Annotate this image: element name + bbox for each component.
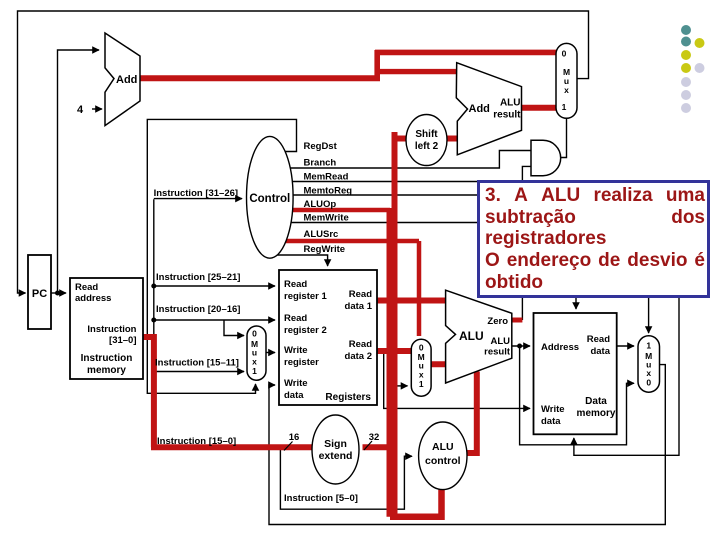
adder Add branch target [456,63,521,155]
wire red shift left 2 input stub [392,136,408,142]
svg-text:memory: memory [577,408,616,419]
control unit ellipse [246,136,293,258]
svg-text:Sign: Sign [324,438,347,450]
data memory box [534,313,617,434]
svg-text:1: 1 [252,366,257,376]
svg-text:Shift: Shift [415,129,438,140]
wire red PC+4 top row to top mux input 0 [375,50,557,56]
svg-text:data 1: data 1 [345,301,373,312]
wire Instruction [20-16] tap to RegDst mux input 0 [224,320,244,336]
svg-text:Read: Read [75,282,98,293]
svg-text:register: register [284,357,319,368]
svg-text:data: data [590,346,610,357]
svg-text:x: x [564,85,569,95]
svg-text:MemRead: MemRead [304,172,349,183]
wire red Read data 2 to ALUSrc mux input 0 [377,348,411,354]
alu U-main [446,290,512,383]
wire red ALUOp control line [286,208,390,213]
svg-text:1: 1 [419,379,424,389]
svg-text:Registers: Registers [325,392,371,403]
decor dot lavender 3 [681,103,691,113]
svg-text:data: data [284,390,304,401]
decor dot yellow 2 [681,63,691,73]
svg-text:x: x [646,368,651,378]
svg-text:Write: Write [284,345,308,356]
wire Read data 2 tap down to data memory Write data [384,351,530,408]
svg-text:1: 1 [646,341,651,351]
tick 32-bit bus width mark [364,441,372,450]
wire red branch Add result to top mux input 1 [522,105,558,111]
svg-text:Data: Data [585,396,607,407]
wire MemtoReg control signal to right mux select [288,195,649,333]
svg-text:Add: Add [116,74,137,86]
svg-text:[31–0]: [31–0] [109,335,136,346]
wire red ALUSrc mux output to ALU lower input [431,361,448,367]
svg-text:ALU: ALU [490,336,510,347]
wire sign-extended immediate to ALUSrc mux input 1 [398,385,408,387]
sign extend ellipse [312,415,359,484]
decor dot teal 2 [681,37,691,47]
svg-text:Read: Read [349,339,372,350]
svg-text:data: data [541,416,561,427]
wire Instruction [20-16] to Read register 2 [154,319,275,321]
wire RegDst mux output to Write register [266,352,275,354]
svg-text:Read: Read [284,279,307,290]
decor dot teal 1 [681,25,691,35]
svg-text:x: x [419,370,424,380]
svg-text:RegDst: RegDst [304,141,338,152]
wire red Zero output stub [512,318,523,323]
svg-text:0: 0 [646,378,651,388]
wire red sign extend output to vertical trunk [363,444,395,450]
wire ALU result to data memory Address [512,345,530,347]
decor dot lavender 1 [681,77,691,87]
svg-text:control: control [425,455,461,467]
wire red vertical trunk combined segment [387,208,398,517]
wire PC value up to Add input [58,50,100,293]
svg-text:Instruction [31–26]: Instruction [31–26] [154,188,238,199]
svg-text:Instruction: Instruction [81,353,133,364]
wire ALU result down and around to right mux input 0 [520,346,634,445]
wire MemRead control signal to data memory bottom [288,182,679,456]
registers file box [279,270,377,405]
svg-text:left 2: left 2 [415,141,439,152]
wire Instruction [25-21] to Read register 1 [154,285,275,287]
svg-text:0: 0 [562,49,567,59]
svg-text:ALU: ALU [500,98,521,109]
svg-text:Address: Address [541,342,579,353]
wire MemWrite control signal to data memory top [286,223,576,310]
svg-text:result: result [484,347,511,358]
svg-text:Add: Add [469,103,490,115]
svg-text:memory: memory [87,365,126,376]
wire Instruction [15-11] to RegDst mux input 1 [154,371,244,373]
wire data memory Read data to right mux input 1 [617,345,634,347]
svg-text:16: 16 [289,432,300,443]
svg-text:Read: Read [284,313,307,324]
mux RegDst write register [247,326,266,380]
wire Instruction [31-26] to Control [154,198,242,200]
svg-text:Instruction [20–16]: Instruction [20–16] [156,304,240,315]
svg-text:Instruction [15–11]: Instruction [15–11] [155,358,239,369]
wire red PC+4 jog vertical [374,50,380,81]
svg-text:RegWrite: RegWrite [304,244,346,255]
svg-text:4: 4 [77,104,84,116]
svg-text:ALU: ALU [432,441,454,453]
svg-text:Instruction [15–0]: Instruction [15–0] [157,436,236,447]
wire red trunk bottom to ALU control [390,487,442,517]
wire red vertical trunk sign-ext segment [392,132,398,212]
tick 16-bit bus width mark [284,442,293,451]
svg-text:register 1: register 1 [284,291,327,302]
svg-text:Instruction [5–0]: Instruction [5–0] [284,493,358,504]
node junction on bus at 25-21 tap [151,284,156,289]
svg-text:1: 1 [562,102,567,112]
callout text box [477,180,710,298]
wire instruction bus vertical [153,199,155,340]
svg-text:extend: extend [319,450,353,462]
svg-text:Instruction: Instruction [87,324,136,335]
svg-text:ALUOp: ALUOp [304,199,337,210]
svg-text:Instruction [25–21]: Instruction [25–21] [156,272,240,283]
decor dot lavender 2 [681,90,691,100]
mux MemtoReg right [638,336,660,392]
svg-text:ALUSrc: ALUSrc [304,229,339,240]
wire AND gate output up to top mux select [561,118,567,157]
svg-text:register 2: register 2 [284,325,327,336]
svg-text:MemWrite: MemWrite [304,213,349,224]
register PC [28,255,51,329]
mux ALUSrc [411,339,431,396]
alu control ellipse [419,422,467,490]
wire PC feedback from top mux output along top edge down to PC [18,11,589,293]
wire Zero flag up to AND gate lower input [522,166,531,320]
shift left 2 ellipse [406,115,447,166]
wire Instruction [5-0] to ALU control [280,447,412,509]
wire red shift left 2 output to branch Add lower input [445,136,458,142]
svg-text:Write: Write [284,378,308,389]
svg-text:0: 0 [419,343,424,353]
svg-text:data 2: data 2 [345,351,372,362]
decor dot lavender side [695,63,705,73]
instruction memory box [70,278,143,379]
mux PCSrc top right [556,43,577,118]
decor dot yellow side [695,38,705,48]
wire RegDst control signal routed over top and down left to mux select [147,119,296,393]
wire red Read data 1 to ALU upper input [377,298,448,304]
wire PC output to instruction memory read address [51,292,66,294]
node PC output junction [55,291,60,296]
wire red PC+4 from Add output [140,75,380,81]
svg-text:32: 32 [369,432,380,443]
svg-text:PC: PC [32,288,47,300]
svg-text:Control: Control [249,193,290,205]
svg-text:ALU: ALU [459,329,484,343]
svg-text:Read: Read [349,289,372,300]
svg-text:Write: Write [541,404,565,415]
node ALU result junction [517,344,522,349]
svg-text:Branch: Branch [304,158,337,169]
node junction on bus at 20-16 tap [151,318,156,323]
svg-text:0: 0 [252,329,257,339]
svg-text:address: address [75,293,111,304]
wire constant 4 into Add [92,108,102,110]
wire Branch control signal to AND gate [284,151,531,169]
wire RegWrite control signal to Registers top [272,255,328,266]
gate AND branch [531,140,561,175]
svg-text:MemtoReg: MemtoReg [304,186,353,197]
decor dot yellow 1 [681,50,691,60]
wire write-back from right mux output around bottom to Write data [269,365,665,525]
wire red ALUSrc control line down to ALUSrc mux select [280,241,419,336]
wire red PC+4 into branch Add top input [375,69,458,74]
svg-text:x: x [252,357,257,367]
svg-text:Zero: Zero [487,316,508,327]
wire red ALU control output up to ALU bottom [460,372,477,454]
svg-text:Read: Read [587,334,610,345]
svg-text:result: result [493,110,521,121]
wire red instruction bus from instruction memory down to sign extend [143,334,313,447]
adder Add PC+4 [105,33,140,126]
